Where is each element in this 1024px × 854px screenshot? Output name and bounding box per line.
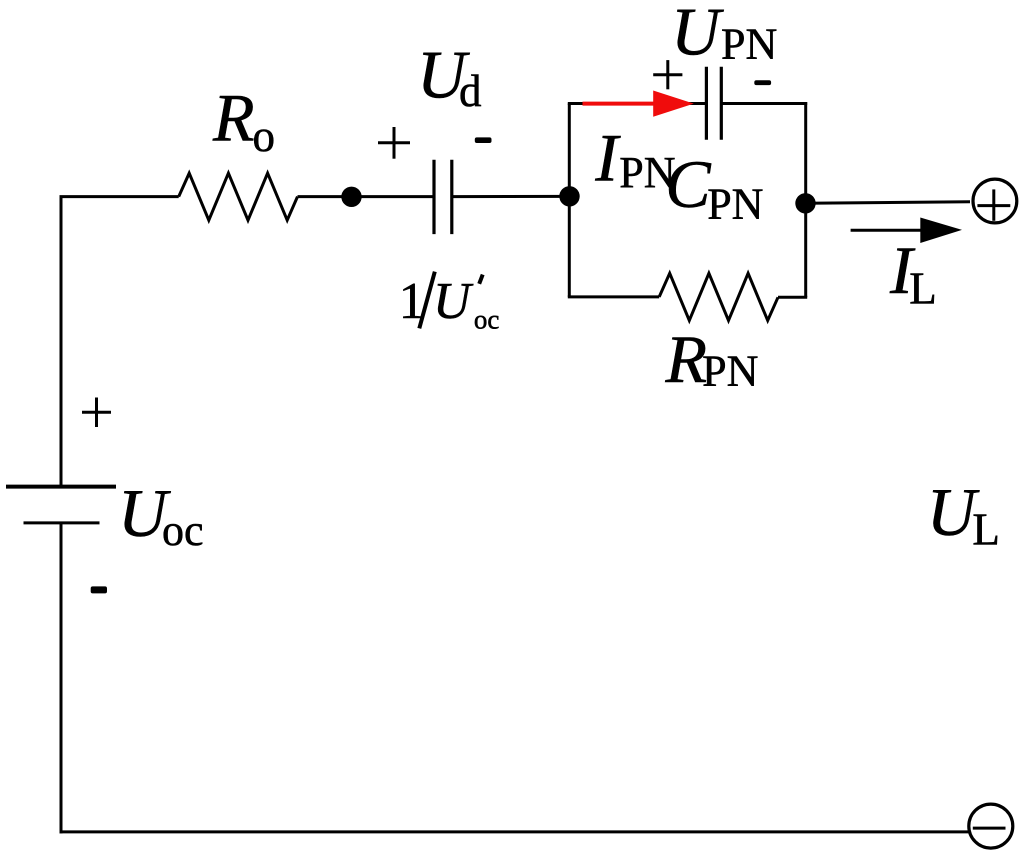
load current arrow I_L [851, 218, 962, 244]
svg-text:I: I [594, 120, 621, 196]
node B (left node of RC block) [559, 186, 579, 206]
wire: left vertical (top half, battery + side) [60, 197, 63, 487]
svg-text:d: d [459, 66, 482, 116]
wire: U_d to parallel block [452, 195, 570, 198]
wire: top horizontal from battery to R_o [60, 195, 179, 198]
battery minus sign [91, 586, 107, 593]
label I_L [889, 232, 937, 313]
battery plus sign [82, 398, 111, 428]
wire: left vertical (bottom half, battery - side) [60, 523, 63, 834]
wire: RC block left vertical [568, 104, 571, 297]
wire: RC block right vertical [804, 102, 807, 297]
current arrow I_PN (red) [583, 91, 694, 117]
capacitor U_d plates [434, 160, 452, 234]
label U_oc [118, 475, 204, 555]
resistor R_PN [659, 273, 778, 320]
label 1/U'_oc [399, 272, 500, 335]
label R_PN [665, 321, 759, 397]
wire: RC block bottom right segment [778, 296, 807, 299]
node A (junction dot after R_o) [341, 187, 361, 207]
battery U_oc long plate (+) [6, 485, 116, 489]
svg-text:PN: PN [721, 20, 777, 69]
C_PN plus sign [653, 60, 682, 89]
svg-text:PN: PN [702, 346, 758, 395]
svg-text:o: o [253, 111, 276, 161]
negative terminal circle-minus [969, 804, 1013, 848]
label C_PN [665, 146, 763, 228]
resistor R_o [179, 173, 298, 220]
positive terminal circle-plus [973, 179, 1017, 223]
svg-text:L: L [909, 263, 937, 313]
label I_PN [594, 120, 675, 198]
svg-text:U: U [671, 0, 724, 70]
wire: R_o to capacitor U_d [298, 195, 435, 198]
svg-text:oc: oc [162, 506, 204, 555]
wire: RC block top left segment to C_PN [568, 102, 707, 105]
U_d plus sign [378, 127, 410, 159]
node C (right node of RC block) [795, 193, 815, 213]
wire: RC block top right segment [721, 102, 807, 105]
battery U_oc short plate (-) [24, 521, 100, 524]
svg-text:U: U [433, 273, 474, 330]
svg-text:R: R [665, 321, 708, 397]
wire: bottom horizontal [60, 830, 970, 833]
wire: RC block bottom left segment [568, 295, 659, 298]
svg-text:C: C [665, 146, 711, 222]
svg-text:L: L [972, 505, 1000, 555]
label U_PN [671, 0, 777, 70]
C_PN minus sign [754, 80, 771, 85]
capacitor C_PN plates [706, 67, 721, 140]
svg-text:R: R [212, 80, 255, 156]
wire: output to positive terminal [806, 202, 971, 204]
label U_L [927, 474, 1000, 555]
svg-text:PN: PN [707, 179, 763, 228]
U_d minus sign [475, 137, 492, 143]
label R_o [212, 80, 275, 162]
label U_d [417, 37, 482, 116]
svg-text:oc: oc [474, 304, 500, 334]
